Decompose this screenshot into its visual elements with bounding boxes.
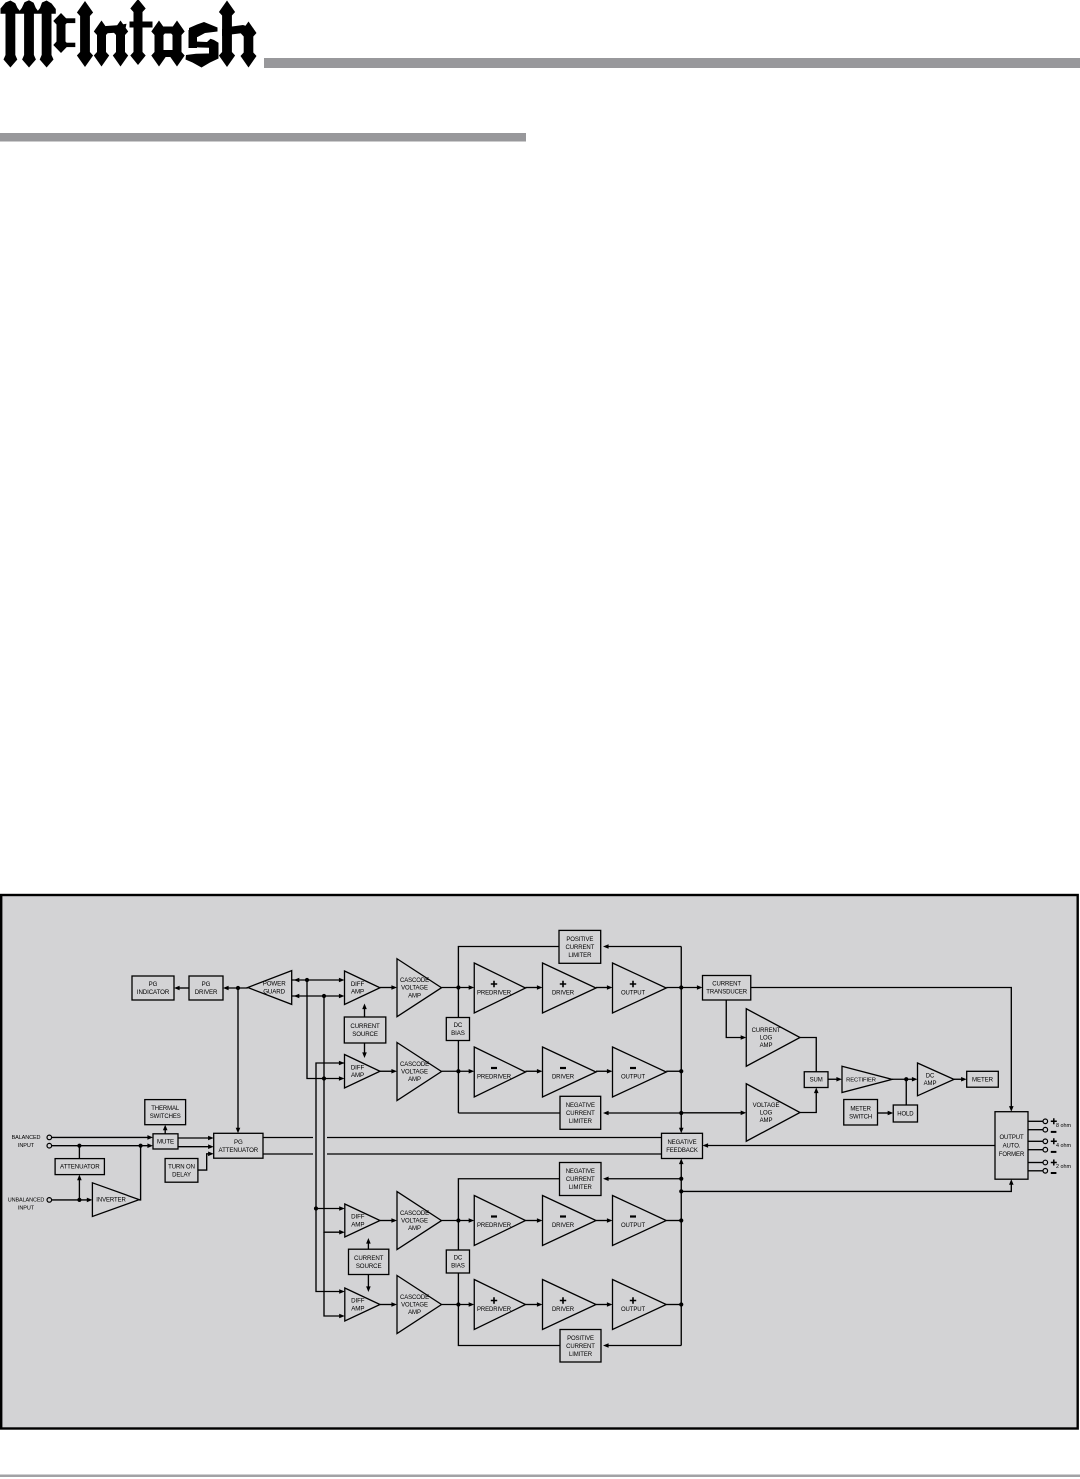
block PG DRIVER (189, 976, 223, 1000)
amp OUTPUT + lower (613, 1280, 667, 1330)
amp CASCODE VOLTAGE AMP 4 (397, 1276, 442, 1334)
block POSITIVE CURRENT LIMITER lower (560, 1330, 601, 1363)
svg-text:LIMITER: LIMITER (569, 1185, 593, 1191)
svg-text:DC: DC (454, 1022, 463, 1029)
svg-text:VOLTAGE: VOLTAGE (401, 986, 428, 992)
svg-text:LIMITER: LIMITER (568, 953, 592, 959)
wire power guard to PG driver (223, 986, 248, 991)
svg-text:SOURCE: SOURCE (352, 1031, 378, 1038)
svg-text:OUTPUT: OUTPUT (621, 990, 646, 996)
wire output - lower to node (666, 1220, 681, 1222)
wire vertical net to diff amp tops (x=316) (314, 1061, 345, 1294)
wire current source lower down (366, 1275, 371, 1293)
wire output + lower to node (666, 1304, 681, 1306)
block CURRENT SOURCE lower (349, 1249, 389, 1274)
svg-text:VOLTAGE: VOLTAGE (401, 1219, 428, 1225)
wire power guard input line 1 (292, 978, 345, 983)
amp DRIVER + lower (543, 1280, 597, 1330)
svg-text:AMP: AMP (408, 993, 421, 999)
svg-text:AMP: AMP (351, 1072, 364, 1079)
svg-text:CASCODE: CASCODE (400, 1211, 429, 1217)
amp DIFF AMP 4 (345, 1288, 380, 1321)
svg-text:OUTPUT: OUTPUT (621, 1223, 646, 1229)
amp DIFF AMP 3 (345, 1204, 380, 1237)
svg-text:POWER: POWER (263, 981, 287, 988)
svg-text:BIAS: BIAS (451, 1030, 465, 1037)
wire vertical net to lower diff amps (x=324) (324, 996, 345, 1318)
svg-text:CURRENT: CURRENT (354, 1255, 384, 1262)
wire driver - to output - (596, 1069, 613, 1074)
wire meter switch to hold (878, 1111, 894, 1116)
wire output - to node (666, 1070, 681, 1072)
block CURRENT TRANSDUCER (703, 976, 751, 1001)
amp VOLTAGE LOG AMP (746, 1084, 800, 1142)
wire voltage log amp input (681, 1111, 746, 1116)
wire MUTE to PG attenuator line1 (178, 1136, 214, 1141)
McIntosh logo (1, 0, 257, 68)
wire diff amp 1 to cascode 1 (380, 985, 397, 990)
svg-text:PG: PG (234, 1139, 243, 1146)
wire diff amp 3 to cascode 3 (380, 1218, 397, 1223)
wire driver - to output - lower (596, 1218, 613, 1223)
block METER (967, 1071, 999, 1087)
wire diff amp 4 to cascode 4 (380, 1302, 397, 1307)
svg-text:AUTO.: AUTO. (1003, 1143, 1021, 1149)
amp INVERTER (92, 1183, 139, 1217)
header rule left (0, 133, 526, 142)
svg-text:AMP: AMP (760, 1043, 773, 1049)
wire predriver + to driver + lower (526, 1302, 543, 1307)
svg-text:HOLD: HOLD (897, 1111, 914, 1117)
wire PG node down to PG attenuator (236, 988, 241, 1133)
amp PREDRIVER + upper (474, 963, 525, 1013)
svg-text:GUARD: GUARD (263, 988, 285, 995)
amp PREDRIVER + lower (474, 1280, 525, 1330)
svg-text:THERMAL: THERMAL (151, 1106, 180, 1112)
amp RECTIFIER (842, 1066, 892, 1092)
wire feedback from autoformer (703, 1143, 996, 1148)
svg-text:VOLTAGE: VOLTAGE (401, 1069, 428, 1075)
svg-text:TRANSDUCER: TRANSDUCER (706, 990, 747, 996)
svg-text:ATTENUATOR: ATTENUATOR (219, 1147, 259, 1154)
wire dc amp to meter (954, 1077, 967, 1082)
amp DIFF AMP 2 (345, 1055, 381, 1089)
svg-text:BIAS: BIAS (451, 1263, 465, 1270)
svg-text:DRIVER: DRIVER (552, 1307, 575, 1313)
output terminals 4 ohm (1028, 1138, 1071, 1152)
amp PREDRIVER - upper (474, 1047, 525, 1097)
svg-text:MUTE: MUTE (157, 1138, 174, 1145)
svg-text:AMP: AMP (408, 1226, 421, 1232)
svg-text:OUTPUT: OUTPUT (621, 1074, 646, 1080)
wire unbalanced up to attenuator (77, 1175, 82, 1200)
svg-text:NEGATIVE: NEGATIVE (566, 1103, 595, 1109)
svg-text:CURRENT: CURRENT (566, 945, 595, 951)
svg-text:AMP: AMP (760, 1118, 773, 1124)
header rule right (264, 58, 1080, 68)
svg-text:AMP: AMP (351, 1305, 364, 1312)
svg-text:METER: METER (972, 1076, 994, 1083)
wire negative feedback lower vertical (679, 1159, 684, 1346)
wire lower loop left (458, 1179, 560, 1346)
wire current log amp to sum (800, 1038, 816, 1072)
block POSITIVE CURRENT LIMITER upper (559, 930, 601, 963)
svg-text:AMP: AMP (924, 1081, 937, 1087)
svg-text:INDICATOR: INDICATOR (137, 989, 170, 996)
wire line2 to attenuator top (78, 1146, 80, 1159)
svg-text:DC: DC (454, 1255, 463, 1262)
svg-text:TURN ON: TURN ON (168, 1164, 195, 1170)
wire MUTE to PG attenuator line2 (178, 1144, 214, 1149)
block NEGATIVE CURRENT LIMITER upper (560, 1096, 601, 1129)
output terminals 8 ohm (1028, 1118, 1071, 1132)
amp DRIVER - upper (543, 1047, 597, 1097)
wire driver + to output + (596, 985, 613, 990)
amp CASCODE VOLTAGE AMP 2 (397, 1043, 442, 1101)
svg-text:SWITCH: SWITCH (849, 1114, 872, 1120)
bus PG attenuator line 2 (263, 1153, 662, 1155)
svg-text:CURRENT: CURRENT (712, 982, 741, 988)
svg-text:POSITIVE: POSITIVE (566, 937, 593, 943)
svg-text:DRIVER: DRIVER (552, 1074, 575, 1080)
svg-text:PG: PG (149, 981, 158, 988)
svg-text:2 ohm: 2 ohm (1056, 1164, 1071, 1170)
amp OUTPUT + upper (613, 963, 667, 1013)
svg-text:DRIVER: DRIVER (552, 990, 575, 996)
wire PG driver to PG indicator (174, 986, 189, 991)
svg-text:FEEDBACK: FEEDBACK (666, 1148, 698, 1154)
wire unbalanced to inverter (52, 1198, 93, 1203)
wire transducer down to current log amp (726, 1000, 746, 1040)
amp DRIVER - lower (543, 1196, 597, 1246)
wire balanced line 1 to MUTE (52, 1135, 153, 1140)
svg-text:RECTIFIER: RECTIFIER (846, 1077, 876, 1083)
wire lower output to autoformer bottom (681, 1179, 1013, 1191)
svg-text:OUTPUT: OUTPUT (999, 1135, 1024, 1141)
wire current source down to diff amp 2 (362, 1043, 367, 1058)
wire sum to rectifier (828, 1077, 842, 1082)
block PG ATTENUATOR (214, 1133, 263, 1158)
svg-text:PREDRIVER: PREDRIVER (477, 1223, 512, 1229)
svg-text:DIFF: DIFF (351, 1065, 365, 1072)
block THERMAL SWITCHES (145, 1100, 186, 1125)
amp OUTPUT - upper (613, 1047, 667, 1097)
amp CURRENT LOG AMP (746, 1009, 800, 1067)
block SUM (804, 1072, 828, 1088)
svg-text:CASCODE: CASCODE (400, 1295, 429, 1301)
wire into negative current limiter (603, 1111, 681, 1116)
block OUTPUT AUTOFORMER (995, 1112, 1028, 1180)
svg-text:SWITCHES: SWITCHES (150, 1114, 181, 1120)
svg-text:AMP: AMP (351, 989, 364, 996)
block NEGATIVE FEEDBACK (662, 1133, 703, 1158)
wire cascode 2 to predriver - (442, 1069, 475, 1074)
wire predriver + to driver + (526, 985, 543, 990)
svg-text:NEGATIVE: NEGATIVE (566, 1169, 595, 1175)
wire into negative current limiter lower (603, 1176, 681, 1181)
svg-text:4 ohm: 4 ohm (1056, 1143, 1071, 1149)
svg-text:VOLTAGE: VOLTAGE (401, 1302, 428, 1308)
wire current source up to diff amp 1 (362, 1004, 367, 1018)
wire rectifier node down to hold (905, 1079, 907, 1105)
svg-text:VOLTAGE: VOLTAGE (753, 1103, 780, 1109)
svg-text:LIMITER: LIMITER (569, 1352, 593, 1358)
wire top loop left/top/bottom (458, 947, 560, 1114)
wire output + to current transducer (666, 985, 702, 990)
block PG INDICATOR (132, 976, 174, 1000)
svg-text:LOG: LOG (760, 1035, 773, 1041)
balanced input terminals (47, 1135, 52, 1148)
svg-text:8 ohm: 8 ohm (1056, 1123, 1071, 1129)
wire cascode 4 to predriver + lower (442, 1302, 475, 1307)
unbalanced input terminal (47, 1198, 52, 1203)
svg-text:PG: PG (202, 981, 211, 988)
svg-text:PREDRIVER: PREDRIVER (477, 990, 512, 996)
svg-text:AMP: AMP (408, 1310, 421, 1316)
wire into positive current limiter (603, 944, 681, 949)
svg-text:AMP: AMP (351, 1221, 364, 1228)
svg-text:CASCODE: CASCODE (400, 1062, 429, 1068)
footer rule (0, 1475, 1080, 1478)
svg-text:BALANCED: BALANCED (12, 1135, 41, 1141)
svg-text:LOG: LOG (760, 1110, 773, 1116)
svg-text:INPUT: INPUT (18, 1143, 35, 1149)
wire current source lower up (366, 1238, 371, 1249)
svg-text:DRIVER: DRIVER (195, 989, 218, 996)
block ATTENUATOR (55, 1159, 104, 1175)
wire cascode 3 to predriver - lower (442, 1218, 475, 1223)
svg-text:LIMITER: LIMITER (569, 1119, 593, 1125)
wire top loop right vertical (679, 947, 684, 1134)
svg-text:CURRENT: CURRENT (566, 1111, 595, 1117)
amp POWER GUARD (248, 971, 292, 1005)
block CURRENT SOURCE upper (344, 1017, 386, 1043)
svg-text:PREDRIVER: PREDRIVER (477, 1307, 512, 1313)
amp CASCODE VOLTAGE AMP 3 (397, 1192, 442, 1250)
svg-text:UNBALANCED: UNBALANCED (8, 1197, 45, 1203)
svg-text:POSITIVE: POSITIVE (567, 1336, 594, 1342)
block NEGATIVE CURRENT LIMITER lower (560, 1163, 602, 1196)
svg-text:DIFF: DIFF (351, 981, 365, 988)
svg-text:DC: DC (926, 1074, 935, 1080)
bus PG attenuator line 1 (263, 1137, 662, 1139)
amp CASCODE VOLTAGE AMP 1 (397, 959, 442, 1017)
svg-text:DRIVER: DRIVER (552, 1223, 575, 1229)
amp DC AMP (918, 1063, 955, 1096)
block TURN ON DELAY (165, 1159, 198, 1183)
wire predriver - to driver - (526, 1069, 543, 1074)
svg-text:METER: METER (850, 1106, 871, 1112)
wire balanced line 2 to MUTE (52, 1143, 153, 1148)
wire voltage log amp to sum (800, 1088, 819, 1113)
block HOLD (893, 1105, 917, 1122)
svg-text:INVERTER: INVERTER (96, 1198, 126, 1204)
amp DRIVER + upper (543, 963, 597, 1013)
wire transducer to autoformer top (751, 988, 1014, 1112)
svg-text:ATTENUATOR: ATTENUATOR (60, 1164, 100, 1171)
block MUTE (153, 1134, 178, 1149)
svg-text:FORMER: FORMER (999, 1152, 1025, 1158)
svg-text:DELAY: DELAY (172, 1172, 191, 1178)
block METER SWITCH (844, 1100, 878, 1126)
wire into positive current limiter lower (603, 1343, 681, 1348)
svg-text:CURRENT: CURRENT (566, 1344, 595, 1350)
balanced input label (12, 1135, 41, 1149)
svg-text:SUM: SUM (810, 1078, 823, 1084)
diagram frame (1, 895, 1078, 1429)
svg-text:SOURCE: SOURCE (356, 1263, 382, 1270)
output terminals 2 ohm (1028, 1160, 1071, 1174)
svg-text:AMP: AMP (408, 1077, 421, 1083)
wire driver + to output + lower (596, 1302, 613, 1307)
svg-text:CURRENT: CURRENT (752, 1028, 781, 1034)
wire inverter out up to line2 (139, 1146, 140, 1200)
unbalanced input label (8, 1197, 45, 1211)
svg-text:CASCODE: CASCODE (400, 978, 429, 984)
wire rectifier to dc amp (892, 1077, 918, 1082)
svg-text:PREDRIVER: PREDRIVER (477, 1074, 512, 1080)
wire predriver - to driver - lower (526, 1218, 543, 1223)
svg-text:OUTPUT: OUTPUT (621, 1307, 646, 1313)
wire MUTE to thermal switches (163, 1125, 168, 1134)
amp PREDRIVER - lower (474, 1196, 525, 1246)
amp OUTPUT - lower (613, 1196, 667, 1246)
svg-text:CURRENT: CURRENT (350, 1023, 380, 1030)
amp DIFF AMP 1 (345, 971, 381, 1005)
svg-text:CURRENT: CURRENT (566, 1177, 595, 1183)
block DC BIAS lower (446, 1250, 469, 1273)
wire power guard input line 2 (292, 994, 345, 999)
svg-text:NEGATIVE: NEGATIVE (667, 1140, 696, 1146)
wire turn-on delay to PG attenuator (198, 1152, 214, 1171)
wire diff amp 2 to cascode 2 (380, 1069, 397, 1074)
svg-text:DIFF: DIFF (351, 1214, 365, 1221)
block DC BIAS upper (446, 1018, 469, 1041)
svg-text:DIFF: DIFF (351, 1298, 365, 1305)
wire node A to diff amp 2 lower input (307, 980, 345, 1081)
wire cascode 1 to predriver + (442, 985, 475, 990)
svg-text:INPUT: INPUT (18, 1206, 35, 1212)
